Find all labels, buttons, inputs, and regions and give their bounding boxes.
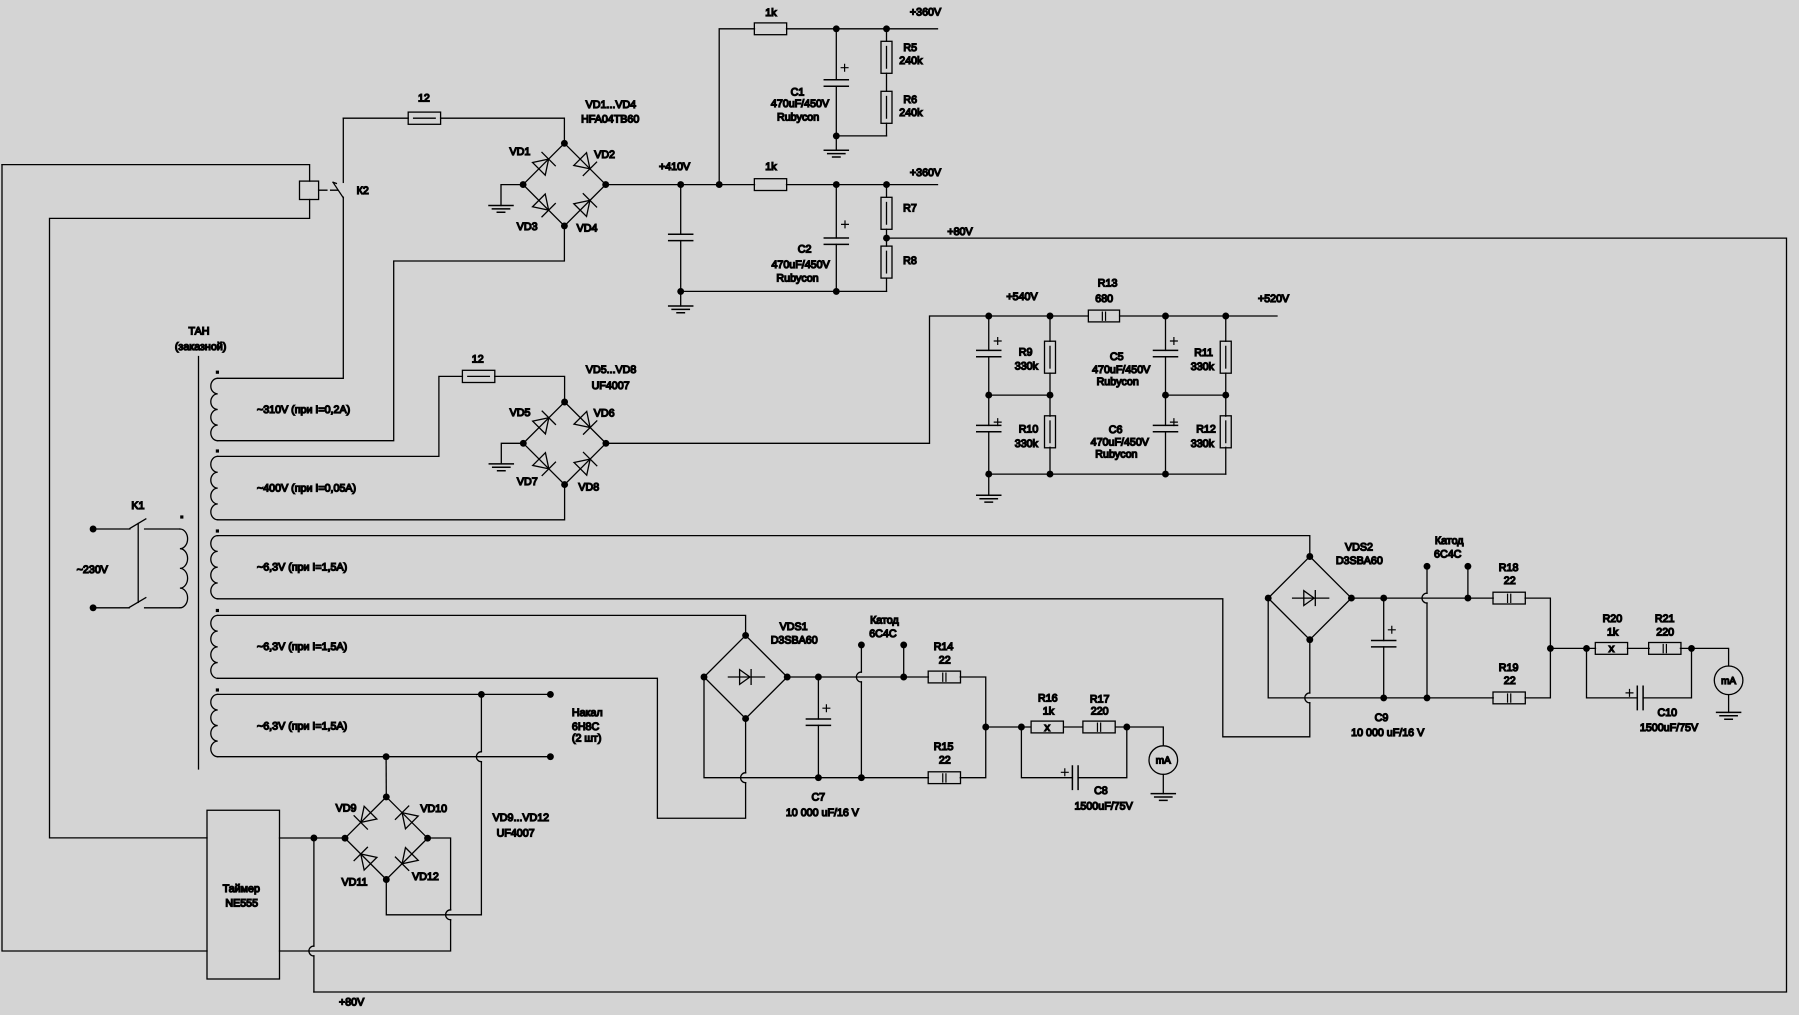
wire K1 bottom terminal [93, 607, 129, 609]
capacitor C7 [806, 719, 830, 725]
wire VDS1 plus wire [787, 676, 928, 678]
svg-text:R19: R19 [1499, 662, 1519, 674]
wire R7 top lead [886, 185, 888, 198]
resistor R19 [1493, 692, 1525, 704]
svg-text:R8: R8 [903, 255, 917, 267]
resistor R21 [1649, 643, 1681, 655]
node bridge3 bottom [383, 876, 390, 883]
node 1k branch junction [716, 181, 723, 188]
svg-text:VD10: VD10 [420, 803, 447, 815]
wire cap col2 top [1165, 316, 1167, 350]
node ground rail junction [677, 288, 684, 295]
wire R5-R6 [886, 73, 888, 91]
wire cap col2 bottom [1165, 432, 1167, 474]
wire filter ground stem [988, 474, 990, 495]
svg-text:HFA04TB60: HFA04TB60 [581, 113, 639, 125]
wire W3 top to VDS2 top [218, 536, 1310, 557]
svg-text:~6,3V (при I=1,5А): ~6,3V (при I=1,5А) [257, 641, 347, 653]
node W5 bottom junction [383, 753, 390, 760]
node C10 right junction [1688, 645, 1695, 652]
node timer-bridge3 junction [310, 835, 317, 842]
wire C9 top lead [1383, 598, 1385, 640]
node VDS2 bottom [1306, 636, 1313, 643]
plus sign C10 [1626, 690, 1633, 697]
svg-text:22: 22 [939, 754, 951, 766]
svg-text:+80V: +80V [947, 226, 973, 238]
box timer NE555 [207, 810, 280, 979]
wire R20-R21 [1627, 647, 1649, 649]
node R10 bottom [1047, 471, 1054, 478]
hop cathode2 wire over plus wire [1422, 593, 1427, 603]
svg-text:Катод: Катод [870, 615, 899, 627]
svg-text:22: 22 [1504, 575, 1516, 587]
svg-text:C9: C9 [1375, 712, 1389, 724]
plus sign cap2a [1171, 338, 1178, 345]
resistor R14 [928, 671, 960, 683]
node rail cap1 [985, 313, 992, 320]
plus sign cap1a [994, 338, 1001, 345]
svg-text:6Н8С: 6Н8С [572, 721, 600, 733]
svg-text:Rubycon: Rubycon [776, 273, 818, 285]
wire bottom rail filter [989, 473, 1226, 475]
svg-text:+410V: +410V [659, 161, 691, 173]
ground at filter [977, 495, 1001, 502]
wire fuse FU1 left [343, 117, 408, 119]
node output1 junction [982, 724, 989, 731]
wire fuse FU2 to bridge VD5-VD8 [495, 376, 565, 402]
node C9 top junction [1380, 595, 1387, 602]
node minus rail cathode2 [1424, 694, 1431, 701]
wire R10 bottom lead [1049, 447, 1051, 474]
node bridge2 top [561, 399, 568, 406]
diode symbol VDS2 [1293, 597, 1329, 599]
terminal cathode2 left [1424, 563, 1431, 570]
wire VDS2 left to minus rail [1268, 598, 1493, 698]
node minus rail C7 [815, 774, 822, 781]
wire W2 top to fuse FU2 [218, 376, 463, 456]
polarity mark W5 [216, 688, 219, 691]
svg-text:1500uF/75V: 1500uF/75V [1074, 801, 1133, 813]
terminal cathode 6C4C left [858, 641, 865, 648]
diode VD10 [395, 806, 418, 829]
wire W5 bottom lead [218, 756, 551, 758]
hop cathode wire over plus wire [856, 672, 861, 682]
svg-text:Катод: Катод [1435, 535, 1464, 547]
resistor 1k upper [754, 23, 786, 35]
diode VD12 [395, 847, 418, 870]
svg-text:R15: R15 [934, 741, 954, 753]
svg-text:NE555: NE555 [225, 898, 258, 910]
meter mA 2 [1714, 666, 1743, 695]
secondary winding W1 ~310V [211, 378, 218, 440]
wire bridge3 right down [428, 838, 451, 910]
diode symbol VDS1 [728, 676, 764, 678]
wire bridge2 bottom to W2 bottom [218, 485, 565, 520]
resistor R11 [1220, 341, 1231, 373]
capacitor C10 [1637, 686, 1643, 709]
terminal ~230V bottom [90, 604, 97, 611]
svg-text:R6: R6 [903, 94, 917, 106]
wire +80V riser upper [313, 838, 315, 946]
wire timer right to bridge3 left [280, 837, 346, 839]
svg-text:VD7: VD7 [517, 476, 538, 488]
wire R9-R10 [1049, 373, 1051, 416]
svg-text:+360V: +360V [910, 167, 942, 179]
wire upper +360V rail [787, 28, 938, 30]
resistor R6 [881, 91, 892, 123]
node bridge2 left [520, 440, 527, 447]
node bridge1 bottom [561, 222, 568, 229]
wire bridge2 output to +540V rail [606, 316, 989, 443]
relay contact K2 [333, 182, 343, 198]
svg-text:VD9...VD12: VD9...VD12 [493, 812, 549, 824]
plus sign C8 [1061, 769, 1068, 776]
wire cap col1 bottom [988, 432, 990, 474]
svg-text:470uF/450V: 470uF/450V [771, 259, 830, 271]
svg-text:R14: R14 [934, 641, 954, 653]
svg-text:C7: C7 [811, 791, 825, 803]
wire output2 [1550, 647, 1595, 649]
svg-text:12: 12 [472, 354, 484, 366]
svg-text:VD9: VD9 [336, 802, 357, 814]
node cathode right junction [900, 674, 907, 681]
wire cathode left terminal down [860, 645, 862, 672]
svg-text:C2: C2 [798, 243, 812, 255]
svg-text:mA: mA [1721, 676, 1736, 687]
plus sign cap1b [994, 419, 1001, 426]
hop bridge3 right vertical over heater link [446, 910, 451, 920]
diode VD11 [354, 847, 377, 870]
wire C2 bottom lead [835, 244, 837, 291]
wire VDS1 left to minus rail [704, 677, 928, 778]
svg-text:330k: 330k [1015, 438, 1039, 450]
svg-text:1k: 1k [765, 7, 777, 19]
terminal heater top [547, 691, 554, 698]
node C2 top junction [833, 181, 840, 188]
wire C10 right leg [1643, 648, 1691, 698]
svg-text:D3SBA60: D3SBA60 [1336, 555, 1383, 567]
capacitor C9 [1372, 641, 1396, 647]
svg-text:6С4С: 6С4С [1434, 549, 1462, 561]
wire meter1 ground stem [1162, 774, 1164, 793]
hop VDS2 bottom vertical over minus rail [1305, 693, 1310, 703]
node bridge1 right [602, 181, 609, 188]
switch K1 top blade [130, 519, 146, 528]
svg-text:6С4С: 6С4С [869, 628, 897, 640]
wire C1 top lead [835, 29, 837, 80]
svg-text:Накал: Накал [572, 707, 603, 719]
node cap col2 mid [1162, 392, 1169, 399]
svg-text:+360V: +360V [910, 6, 942, 18]
relay coil K2 [300, 181, 319, 199]
hop heater vertical over W5 bottom lead [476, 752, 481, 762]
wire mains to K2 coil top [2, 165, 310, 182]
wire bridge3 top to W5 bottom [385, 757, 387, 797]
svg-text:ТАН: ТАН [188, 325, 209, 337]
svg-text:R11: R11 [1194, 347, 1213, 359]
node VDS1 right [784, 674, 791, 681]
svg-text:+540V: +540V [1006, 291, 1038, 303]
wire +520V rail [1120, 315, 1277, 317]
wire bridge3 bottom to heater link [386, 762, 481, 915]
node C8 right junction [1123, 724, 1130, 731]
transformer core [198, 357, 200, 770]
wire bridge1 bottom to winding W1 bottom [218, 226, 565, 441]
diode VD2 [574, 152, 597, 175]
svg-text:VD5...VD8: VD5...VD8 [586, 364, 637, 376]
svg-text:VDS1: VDS1 [780, 621, 808, 633]
svg-text:~310V (при I=0,2А): ~310V (при I=0,2А) [257, 404, 350, 416]
svg-text:VD3: VD3 [517, 221, 538, 233]
svg-text:R20: R20 [1603, 613, 1623, 625]
svg-text:22: 22 [1504, 675, 1516, 687]
svg-text:1k: 1k [765, 161, 777, 173]
wire bridge1 left to ground [501, 185, 523, 206]
diode VD7 [532, 452, 555, 475]
svg-text:Rubycon: Rubycon [1097, 376, 1139, 388]
svg-text:x: x [1044, 722, 1050, 734]
hop +80V riser over timer loop [309, 946, 314, 956]
svg-text:C10: C10 [1657, 707, 1677, 719]
wire mid link left [989, 394, 1050, 396]
wire bridge2 left to ground [501, 443, 523, 464]
svg-text:10 000 uF/16 V: 10 000 uF/16 V [786, 807, 860, 819]
node C8 left junction [1018, 724, 1025, 731]
wire C2 rail ground stem [680, 291, 682, 306]
wire R8 bottom lead [886, 278, 888, 291]
resistor R20 [1595, 643, 1627, 655]
svg-text:330k: 330k [1191, 361, 1215, 373]
ground at meter1 [1151, 794, 1175, 801]
svg-text:VDS2: VDS2 [1345, 542, 1373, 554]
secondary winding W4 6.3V [211, 615, 218, 678]
wire primary bottom lead [145, 607, 180, 609]
bridge VD5-VD8 diamond [523, 402, 606, 485]
wire +540V rail [989, 315, 1089, 317]
switch K1 link [137, 524, 139, 603]
wire C2 top lead [835, 185, 837, 238]
node minus rail C9 [1380, 694, 1387, 701]
wire C1 bottom lead [835, 86, 837, 136]
svg-text:mA: mA [1156, 756, 1171, 767]
svg-text:R9: R9 [1019, 347, 1033, 359]
wire C8 right leg [1078, 727, 1127, 778]
resistor 1k lower [754, 179, 786, 191]
wire R18 right [1525, 598, 1550, 648]
resistor R7 [881, 197, 892, 229]
hop VDS1 bottom vertical over minus rail [741, 773, 746, 783]
node cathode2 right junction [1464, 595, 1471, 602]
svg-text:680: 680 [1095, 293, 1113, 305]
node W5 top junction [478, 691, 485, 698]
node VDS2 left [1265, 595, 1272, 602]
resistor R18 [1493, 592, 1525, 604]
wire fuse FU1 to bridge VD1-VD4 [441, 118, 565, 143]
svg-text:+520V: +520V [1258, 293, 1290, 305]
wire C7 top lead [817, 677, 819, 719]
wire C10 left leg [1587, 648, 1638, 698]
svg-text:VD1: VD1 [510, 146, 531, 158]
node C10 left junction [1583, 645, 1590, 652]
wire C1 ground stem [835, 136, 837, 150]
wire heater link vertical upper [480, 694, 482, 751]
node bridge1 left [520, 181, 527, 188]
svg-text:VD4: VD4 [577, 222, 598, 234]
svg-text:R7: R7 [903, 203, 917, 215]
capacitor C2 [824, 238, 848, 244]
resistor R15 [928, 772, 960, 784]
capacitor C8 [1072, 766, 1078, 789]
wire meter2 ground stem [1728, 695, 1730, 713]
resistor R5 [881, 41, 892, 73]
wire VDS2 plus wire [1351, 597, 1493, 599]
node R11-R12 mid [1222, 392, 1229, 399]
node bridge2 bottom [561, 481, 568, 488]
terminal heater bottom [547, 753, 554, 760]
wire W4 top to VDS1 top [218, 615, 746, 635]
wire to upper 1k branch [719, 29, 754, 185]
svg-text:C1: C1 [791, 86, 805, 98]
node rail cap2 [1162, 313, 1169, 320]
diode VD9 [354, 806, 377, 829]
svg-text:220: 220 [1091, 706, 1109, 718]
meter mA 1 [1149, 746, 1178, 775]
capacitor C6 left bottom [977, 425, 1001, 431]
node R5 top junction [883, 25, 890, 32]
node VDS1 left [701, 674, 708, 681]
wire C7 bottom lead [817, 725, 819, 777]
relay K2 actuator dash [319, 189, 338, 191]
svg-text:VD6: VD6 [594, 408, 615, 420]
ground at bridge VD5-VD8 [489, 464, 513, 471]
wire R21 to meter2 [1680, 648, 1728, 666]
resistor R8 [881, 246, 892, 278]
node bridge3 right [424, 835, 431, 842]
wire W5 top lead [218, 693, 551, 695]
plus sign C7 [823, 705, 830, 712]
wire C8 left leg [1021, 727, 1072, 778]
wire +410V rail right of 1k [787, 184, 938, 186]
svg-text:~6,3V (при I=1,5А): ~6,3V (при I=1,5А) [257, 720, 347, 732]
svg-text:VD11: VD11 [342, 876, 368, 888]
wire cathode right terminal down [903, 645, 905, 677]
svg-text:330k: 330k [1015, 361, 1039, 373]
svg-text:R12: R12 [1196, 424, 1216, 436]
diode VD8 [574, 452, 597, 475]
diode VD1 [532, 152, 555, 175]
wire R9 top lead [1049, 316, 1051, 341]
svg-text:(заказной): (заказной) [175, 341, 226, 353]
polarity mark primary [180, 515, 183, 518]
svg-text:VD8: VD8 [578, 481, 599, 493]
wire R11 top lead [1225, 316, 1227, 341]
node rail R11 [1222, 313, 1229, 320]
node C7 top junction [815, 674, 822, 681]
wire cathode left terminal to minus rail [860, 682, 862, 778]
svg-text:~230V: ~230V [77, 564, 109, 576]
node cap col1 bottom [985, 471, 992, 478]
wire filter cap top lead [680, 185, 682, 235]
polarity mark W3 [216, 529, 219, 532]
node VDS2 right [1348, 595, 1355, 602]
svg-text:470uF/450V: 470uF/450V [1092, 364, 1151, 376]
node C1 bottom junction [833, 132, 840, 139]
svg-text:R18: R18 [1499, 562, 1519, 574]
node output2 junction [1547, 645, 1554, 652]
wire output1 [986, 726, 1031, 728]
capacitor C5 left top [977, 350, 1001, 356]
bridge VD1-VD4 diamond [523, 143, 606, 226]
wire W3 bottom to VDS2 bottom [218, 599, 1310, 737]
primary winding [180, 529, 188, 608]
svg-text:VD1...VD4: VD1...VD4 [586, 99, 637, 111]
plus sign C1 [841, 64, 848, 71]
switch K1 bottom blade [129, 598, 145, 608]
terminal cathode2 right [1464, 563, 1471, 570]
node +80V junction [883, 235, 890, 242]
svg-text:~6,3V (при I=1,5А): ~6,3V (при I=1,5А) [257, 562, 347, 574]
svg-text:1k: 1k [1607, 627, 1619, 639]
secondary winding W2 ~400V [211, 456, 218, 519]
node minus rail cathode [858, 774, 865, 781]
wire R7-R8 +80V node [886, 229, 888, 246]
svg-text:10 000 uF/16 V: 10 000 uF/16 V [1351, 727, 1425, 739]
wire R11-R12 [1225, 373, 1227, 416]
svg-text:Rubycon: Rubycon [777, 111, 819, 123]
resistor R10 [1045, 416, 1056, 448]
svg-text:UF4007: UF4007 [592, 380, 630, 392]
diode VD6 [574, 411, 597, 434]
wire +410V rail [606, 184, 755, 186]
wire timer right loop [280, 920, 451, 951]
wire R5 top lead [886, 29, 888, 42]
wire cap col1 mid [988, 357, 990, 426]
wire primary top lead [145, 528, 180, 530]
resistor R13 [1088, 310, 1119, 322]
node cap col1 mid [985, 392, 992, 399]
svg-text:12: 12 [418, 92, 430, 104]
plus sign C9 [1388, 626, 1395, 633]
svg-text:470uF/450V: 470uF/450V [771, 98, 830, 110]
node cap col2 bottom [1162, 471, 1169, 478]
svg-text:R21: R21 [1655, 613, 1675, 625]
plus sign C2 [842, 221, 849, 228]
wire VDS2 bottom stub [1309, 640, 1311, 693]
fuse FU2 12A [462, 370, 494, 382]
svg-text:C6: C6 [1109, 424, 1123, 436]
wire K1 top terminal [93, 528, 130, 530]
terminal ~230V top [90, 526, 97, 533]
wire cap col1 top [988, 316, 990, 350]
svg-text:K1: K1 [131, 500, 144, 512]
svg-text:1500uF/75V: 1500uF/75V [1640, 722, 1699, 734]
wire C1 bottom to R6 bottom [836, 135, 886, 137]
ground at C2 rail [669, 306, 693, 313]
wire cathode2 left terminal to minus rail [1426, 603, 1428, 698]
wire cathode2 right terminal down [1467, 566, 1469, 598]
secondary winding W3 6.3V [211, 536, 218, 599]
diode VD4 [574, 194, 597, 217]
polarity mark W1 [216, 371, 219, 374]
capacitor C1 [824, 80, 848, 86]
ground at meter2 [1717, 712, 1741, 719]
node bridge2 right [602, 440, 609, 447]
bridge VDS1 diamond [704, 635, 787, 718]
svg-text:К2: К2 [357, 185, 369, 197]
diode VD5 [532, 411, 555, 434]
wire +80V to right edge and bottom [314, 238, 1787, 992]
wire ground rail under C2 [681, 290, 887, 292]
